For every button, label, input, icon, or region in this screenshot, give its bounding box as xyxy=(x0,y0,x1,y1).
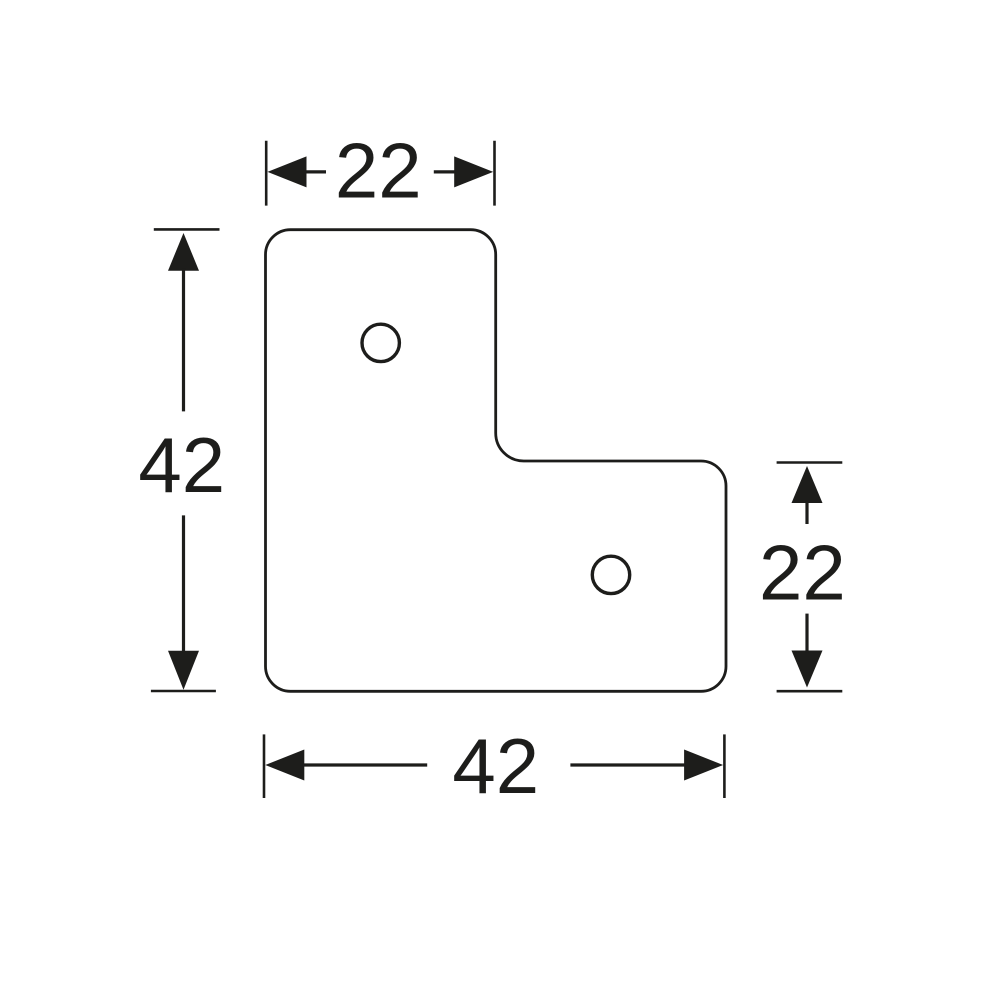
bottom dimension 42: left arrow xyxy=(265,750,304,781)
bottom dimension 42: left extension line xyxy=(263,734,266,798)
svg-text:22: 22 xyxy=(759,529,846,617)
hole lower-right xyxy=(592,556,629,593)
hole upper-left xyxy=(362,324,399,361)
top dimension 22: right extension line xyxy=(493,141,496,206)
left dimension 42: bottom extension line xyxy=(151,690,216,693)
top dimension 22: left arrow xyxy=(268,156,307,187)
left dimension 42: up arrow xyxy=(168,233,199,271)
left dimension 42: top extension line xyxy=(154,228,220,231)
svg-text:42: 42 xyxy=(452,722,539,810)
bottom dimension 42: right extension line xyxy=(723,734,726,798)
top dimension 22: right arrow xyxy=(454,156,493,187)
right dimension 22: top extension line xyxy=(777,461,843,464)
L-shaped plate outline xyxy=(266,230,727,692)
right dimension 22: up arrow xyxy=(792,466,823,503)
svg-text:22: 22 xyxy=(335,127,422,215)
left dimension 42: down arrow xyxy=(168,651,199,690)
top dimension 22: left extension line xyxy=(265,141,268,206)
right dimension 22: down arrow xyxy=(792,651,823,688)
right dimension 22: bottom extension line xyxy=(777,690,843,693)
bottom dimension 42: right arrow xyxy=(684,750,723,781)
svg-text:42: 42 xyxy=(138,421,225,509)
